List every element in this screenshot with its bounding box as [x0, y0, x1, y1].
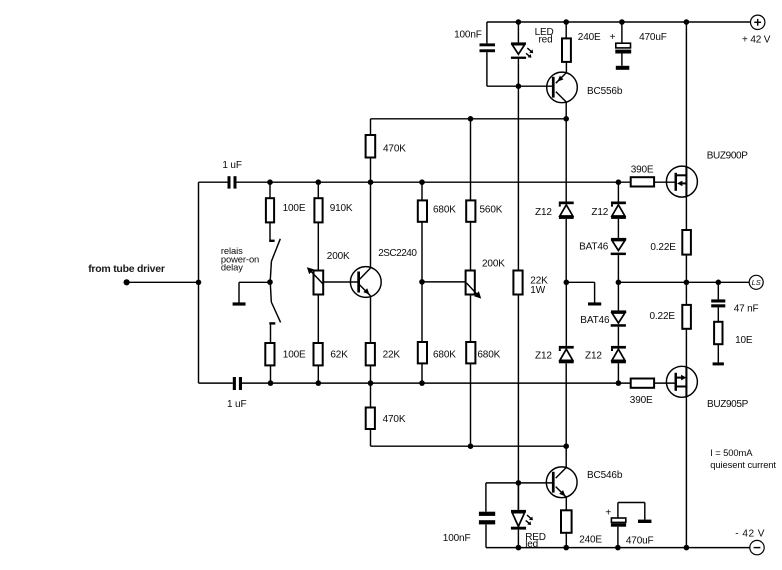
transistor Q BC546b	[546, 446, 623, 510]
svg-text:LS: LS	[752, 278, 761, 287]
svg-text:470K: 470K	[383, 414, 406, 425]
resistor 22K emitter	[366, 343, 401, 383]
capacitor 1uF top	[222, 160, 241, 189]
node 100E top	[267, 179, 273, 185]
svg-text:0.22E: 0.22E	[650, 242, 676, 253]
resistor 470K top	[366, 119, 407, 182]
node top rail at 240E	[563, 19, 569, 25]
node input/vertical	[196, 280, 202, 286]
trimmer 200K right	[466, 259, 506, 299]
bottom negative rail	[486, 547, 750, 549]
node 560K top	[468, 116, 474, 122]
svg-text:0.22E: 0.22E	[650, 311, 676, 322]
node top rail at BUZ900P drain	[684, 19, 690, 25]
wire bias tap to bar	[566, 281, 594, 283]
node 22K bottom	[368, 380, 374, 386]
wire feedback line top (470K to collector)	[371, 118, 567, 120]
svg-text:240E: 240E	[578, 32, 601, 43]
svg-text:470K: 470K	[383, 144, 406, 155]
node top rail at LED	[516, 19, 522, 25]
wire input	[127, 281, 199, 283]
relay contact top	[269, 222, 280, 281]
svg-text:680K: 680K	[433, 205, 456, 216]
resistor 62K	[314, 295, 349, 384]
bottom base line	[199, 382, 233, 384]
svg-text:Z12: Z12	[535, 350, 552, 361]
capacitor 1uF bottom	[227, 377, 246, 410]
node diode chain top	[616, 179, 622, 185]
wire base line BC546b	[518, 482, 553, 484]
wire input vertical	[198, 182, 200, 383]
node 680K br bottom	[468, 443, 474, 449]
trimmer 200K left	[307, 251, 358, 295]
svg-text:560K: 560K	[480, 205, 503, 216]
node output mid	[616, 280, 622, 286]
node 470K/collector	[368, 179, 374, 185]
svg-text:I = 500mA: I = 500mA	[710, 447, 753, 458]
capacitor 470uF top	[610, 22, 667, 70]
node top rail at 470uF	[619, 19, 625, 25]
svg-text:BC556b: BC556b	[587, 86, 623, 97]
node 680K top	[419, 179, 425, 185]
transistor Q 2SC2240	[350, 182, 417, 343]
resistor 470K bottom	[366, 383, 406, 446]
resistor 910K	[314, 182, 353, 270]
diode BAT46 bottom	[580, 282, 626, 346]
svg-text:2SC2240: 2SC2240	[378, 248, 417, 259]
svg-text:1 uF: 1 uF	[227, 399, 246, 410]
capacitor 47nF	[711, 282, 758, 322]
svg-text:100E: 100E	[283, 203, 306, 214]
svg-text:200K: 200K	[482, 259, 505, 270]
svg-text:red: red	[539, 34, 553, 45]
svg-text:1 uF: 1 uF	[222, 160, 241, 171]
node BC556b collector	[563, 116, 569, 122]
svg-text:from tube driver: from tube driver	[88, 263, 165, 275]
wire base line BC556b	[487, 85, 553, 87]
transistor Q BC556b	[547, 72, 623, 119]
wire feedback line bottom	[371, 445, 567, 447]
terminal +42V	[742, 15, 771, 45]
resistor 22K 1W	[513, 271, 548, 510]
svg-text:10E: 10E	[735, 335, 753, 346]
svg-text:BAT46: BAT46	[579, 242, 609, 253]
svg-text:100nF: 100nF	[454, 30, 482, 41]
node 680K bottom	[419, 380, 425, 386]
resistor 680K bottom-right	[466, 295, 500, 447]
node BC546b collector	[563, 443, 569, 449]
svg-text:470uF: 470uF	[639, 32, 667, 43]
svg-text:Z12: Z12	[535, 207, 552, 218]
node 910K top	[316, 179, 322, 185]
svg-text:47 nF: 47 nF	[734, 304, 759, 315]
diodes column Z12 top-left	[535, 119, 574, 282]
diode Z12 top-mid	[591, 182, 626, 238]
resistor 240E top	[562, 22, 601, 73]
node LED/100nF/base	[516, 83, 522, 89]
terminal Ls	[749, 275, 763, 289]
wire LED/22K column	[517, 86, 519, 270]
svg-text:390E: 390E	[631, 164, 654, 175]
relay contact bottom	[269, 283, 280, 343]
capacitor 100nF top	[454, 22, 495, 86]
resistor 100E top	[266, 182, 306, 222]
svg-text:+ 42 V: + 42 V	[742, 35, 771, 46]
resistor 390E top	[631, 164, 675, 186]
svg-text:240E: 240E	[579, 535, 602, 546]
ground	[233, 282, 270, 305]
mosfet BUZ900P	[666, 22, 748, 230]
wire top positive rail	[487, 21, 751, 23]
resistor 100E bottom	[265, 343, 306, 383]
svg-text:200K: 200K	[327, 251, 350, 262]
svg-text:100nF: 100nF	[443, 533, 471, 544]
LED RED bottom	[511, 483, 546, 550]
resistor 680K bottom-left	[418, 342, 456, 383]
node 680K column wiper tie	[419, 279, 425, 285]
resistor 680K top-left	[418, 182, 456, 342]
resistor 390E bottom	[630, 379, 675, 406]
svg-text:680K: 680K	[433, 350, 456, 361]
svg-text:Z12: Z12	[591, 207, 608, 218]
LED red top	[511, 22, 554, 86]
node 100E bottom	[268, 380, 274, 386]
resistor 560K	[466, 119, 503, 271]
node diode chain bottom	[616, 380, 622, 386]
svg-text:1W: 1W	[530, 285, 545, 296]
resistor 0.22E top	[650, 230, 690, 305]
svg-text:delay: delay	[221, 262, 243, 273]
svg-text:100E: 100E	[283, 350, 306, 361]
capacitor 470uF bottom	[605, 503, 653, 548]
svg-text:390E: 390E	[630, 395, 653, 406]
wire top base line	[199, 181, 228, 183]
resistor 240E bottom	[561, 510, 602, 547]
output line	[618, 281, 749, 283]
resistor 10E	[713, 322, 753, 366]
diode Z12 bottom-left	[535, 282, 574, 446]
svg-text:680K: 680K	[477, 350, 500, 361]
node output 0.22E junction	[684, 280, 690, 286]
svg-text:BC546b: BC546b	[587, 470, 623, 481]
node bias mid left	[564, 280, 570, 286]
svg-text:quiesent current: quiesent current	[710, 459, 776, 470]
svg-text:910K: 910K	[330, 203, 353, 214]
svg-text:+: +	[605, 507, 611, 518]
terminal -42V	[735, 529, 765, 555]
svg-text:470uF: 470uF	[626, 535, 654, 546]
svg-text:22K: 22K	[383, 350, 401, 361]
node 62K bottom	[316, 380, 322, 386]
svg-text:BUZ900P: BUZ900P	[707, 151, 749, 162]
svg-text:BAT46: BAT46	[580, 315, 610, 326]
diode Z12 bottom-mid	[585, 346, 626, 383]
svg-text:BUZ905P: BUZ905P	[707, 399, 749, 410]
svg-text:led: led	[525, 539, 538, 550]
svg-text:62K: 62K	[330, 350, 348, 361]
svg-text:- 42 V: - 42 V	[735, 529, 765, 540]
svg-text:Z12: Z12	[585, 350, 602, 361]
input terminal dot	[124, 279, 130, 285]
capacitor 100nF bottom	[443, 512, 495, 548]
resistor 0.22E bottom	[650, 305, 691, 366]
diode BAT46 top	[579, 238, 626, 282]
svg-text:+: +	[610, 32, 616, 43]
mosfet BUZ905P	[666, 366, 748, 547]
wire wiper to 680K column	[422, 281, 466, 283]
node relay common	[267, 279, 273, 285]
node output zobel	[716, 280, 722, 286]
